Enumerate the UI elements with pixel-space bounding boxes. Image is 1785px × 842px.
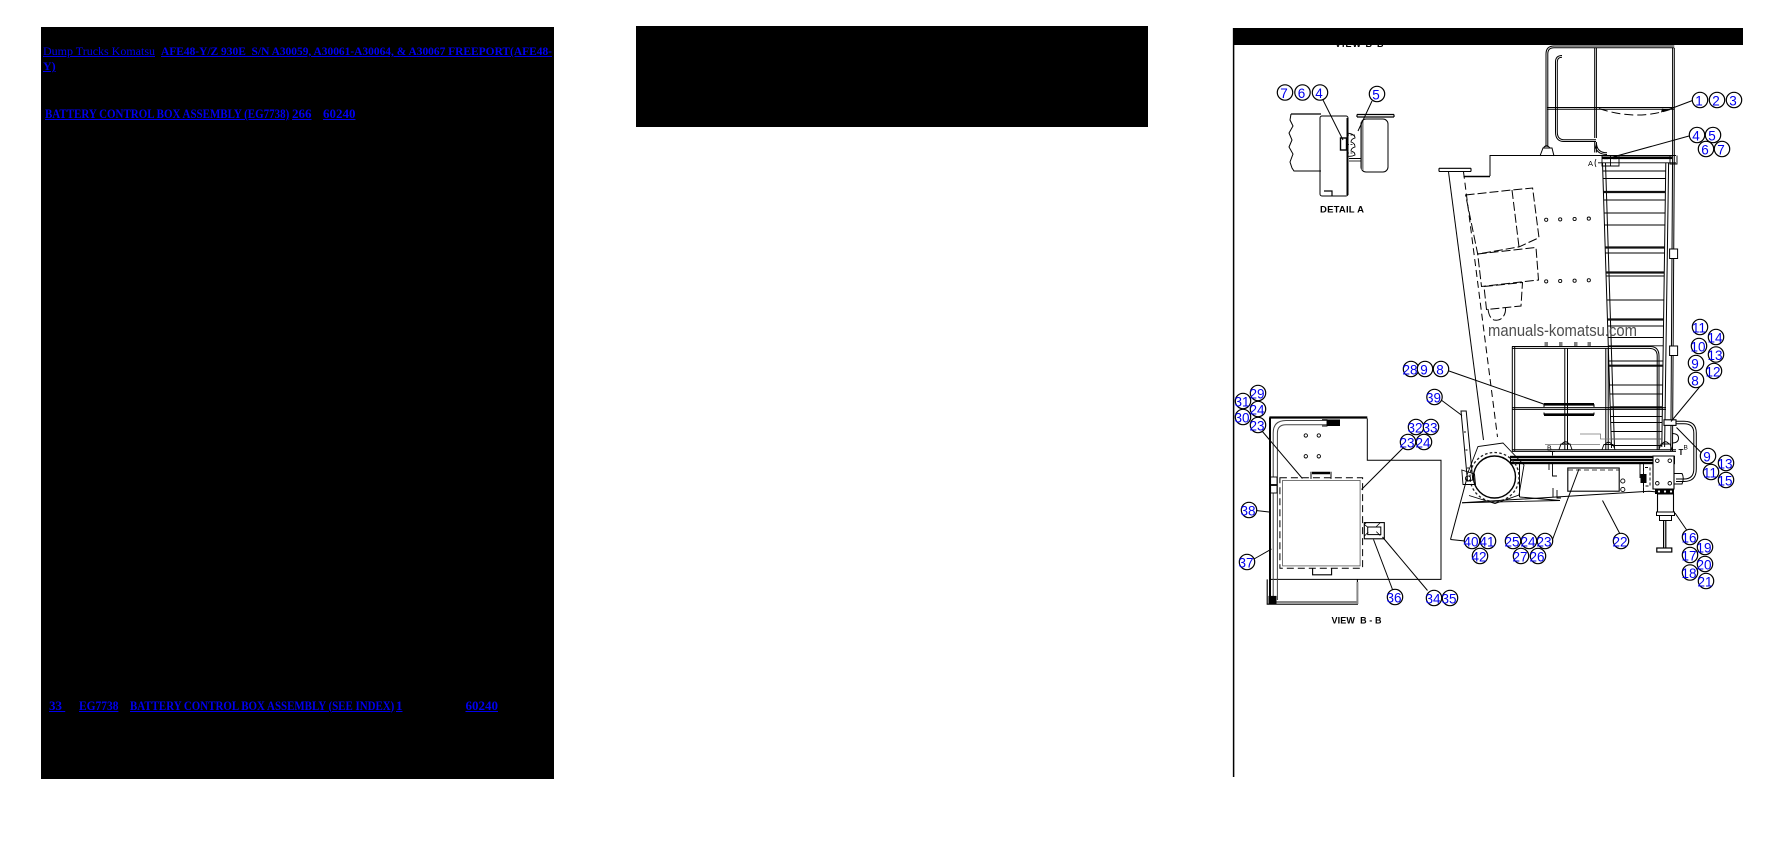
svg-text:30: 30	[1234, 411, 1249, 426]
svg-text:25: 25	[1504, 535, 1519, 550]
svg-text:36: 36	[1386, 591, 1401, 606]
svg-text:15: 15	[1717, 474, 1732, 489]
svg-text:4: 4	[1315, 86, 1323, 101]
svg-text:19: 19	[1696, 541, 1711, 556]
svg-text:22: 22	[1612, 535, 1627, 550]
svg-text:6: 6	[1701, 143, 1709, 158]
svg-text:41: 41	[1479, 535, 1494, 550]
svg-text:8: 8	[1691, 374, 1699, 389]
svg-text:38: 38	[1240, 504, 1255, 519]
svg-text:29: 29	[1249, 387, 1264, 402]
svg-text:13: 13	[1717, 457, 1732, 472]
svg-text:33: 33	[1422, 421, 1437, 436]
svg-text:21: 21	[1697, 575, 1712, 590]
svg-text:14: 14	[1707, 331, 1723, 346]
svg-text:5: 5	[1372, 88, 1380, 103]
svg-text:39: 39	[1426, 391, 1441, 406]
svg-text:7: 7	[1280, 86, 1288, 101]
svg-text:24: 24	[1249, 403, 1265, 418]
svg-text:18: 18	[1681, 566, 1696, 581]
svg-text:1: 1	[1695, 94, 1703, 109]
svg-text:11: 11	[1692, 321, 1706, 336]
svg-text:17: 17	[1681, 549, 1696, 564]
svg-text:DETAIL A: DETAIL A	[1320, 205, 1364, 216]
svg-text:26: 26	[1529, 550, 1544, 565]
svg-text:9: 9	[1420, 363, 1428, 378]
svg-text:5: 5	[1708, 129, 1716, 144]
svg-text:35: 35	[1441, 592, 1456, 607]
svg-text:2: 2	[1712, 94, 1720, 109]
svg-text:40: 40	[1463, 535, 1478, 550]
svg-text:32: 32	[1407, 421, 1422, 436]
svg-text:A: A	[1588, 159, 1593, 168]
svg-text:4: 4	[1692, 129, 1700, 144]
svg-text:3: 3	[1729, 94, 1737, 109]
svg-text:24: 24	[1520, 535, 1536, 550]
svg-text:31: 31	[1234, 395, 1249, 410]
svg-text:11: 11	[1703, 466, 1717, 481]
svg-text:20: 20	[1696, 558, 1711, 573]
svg-text:28: 28	[1402, 363, 1417, 378]
svg-text:12: 12	[1705, 365, 1720, 380]
svg-text:34: 34	[1425, 592, 1441, 607]
svg-text:27: 27	[1512, 550, 1527, 565]
svg-text:9: 9	[1703, 450, 1711, 465]
svg-text:42: 42	[1471, 550, 1486, 565]
svg-text:B: B	[1684, 445, 1688, 452]
svg-text:6: 6	[1298, 86, 1306, 101]
svg-text:23: 23	[1249, 419, 1264, 434]
svg-text:manuals-komatsu.com: manuals-komatsu.com	[1488, 322, 1637, 340]
svg-text:16: 16	[1681, 531, 1696, 546]
svg-text:VIEW B - B: VIEW B - B	[1332, 616, 1383, 626]
svg-text:10: 10	[1690, 340, 1705, 355]
svg-text:23: 23	[1399, 436, 1414, 451]
svg-text:13: 13	[1707, 348, 1722, 363]
svg-text:37: 37	[1238, 556, 1253, 571]
svg-text:8: 8	[1436, 363, 1444, 378]
svg-text:9: 9	[1691, 357, 1699, 372]
svg-text:24: 24	[1415, 436, 1431, 451]
svg-text:7: 7	[1717, 143, 1725, 158]
svg-text:23: 23	[1536, 535, 1551, 550]
